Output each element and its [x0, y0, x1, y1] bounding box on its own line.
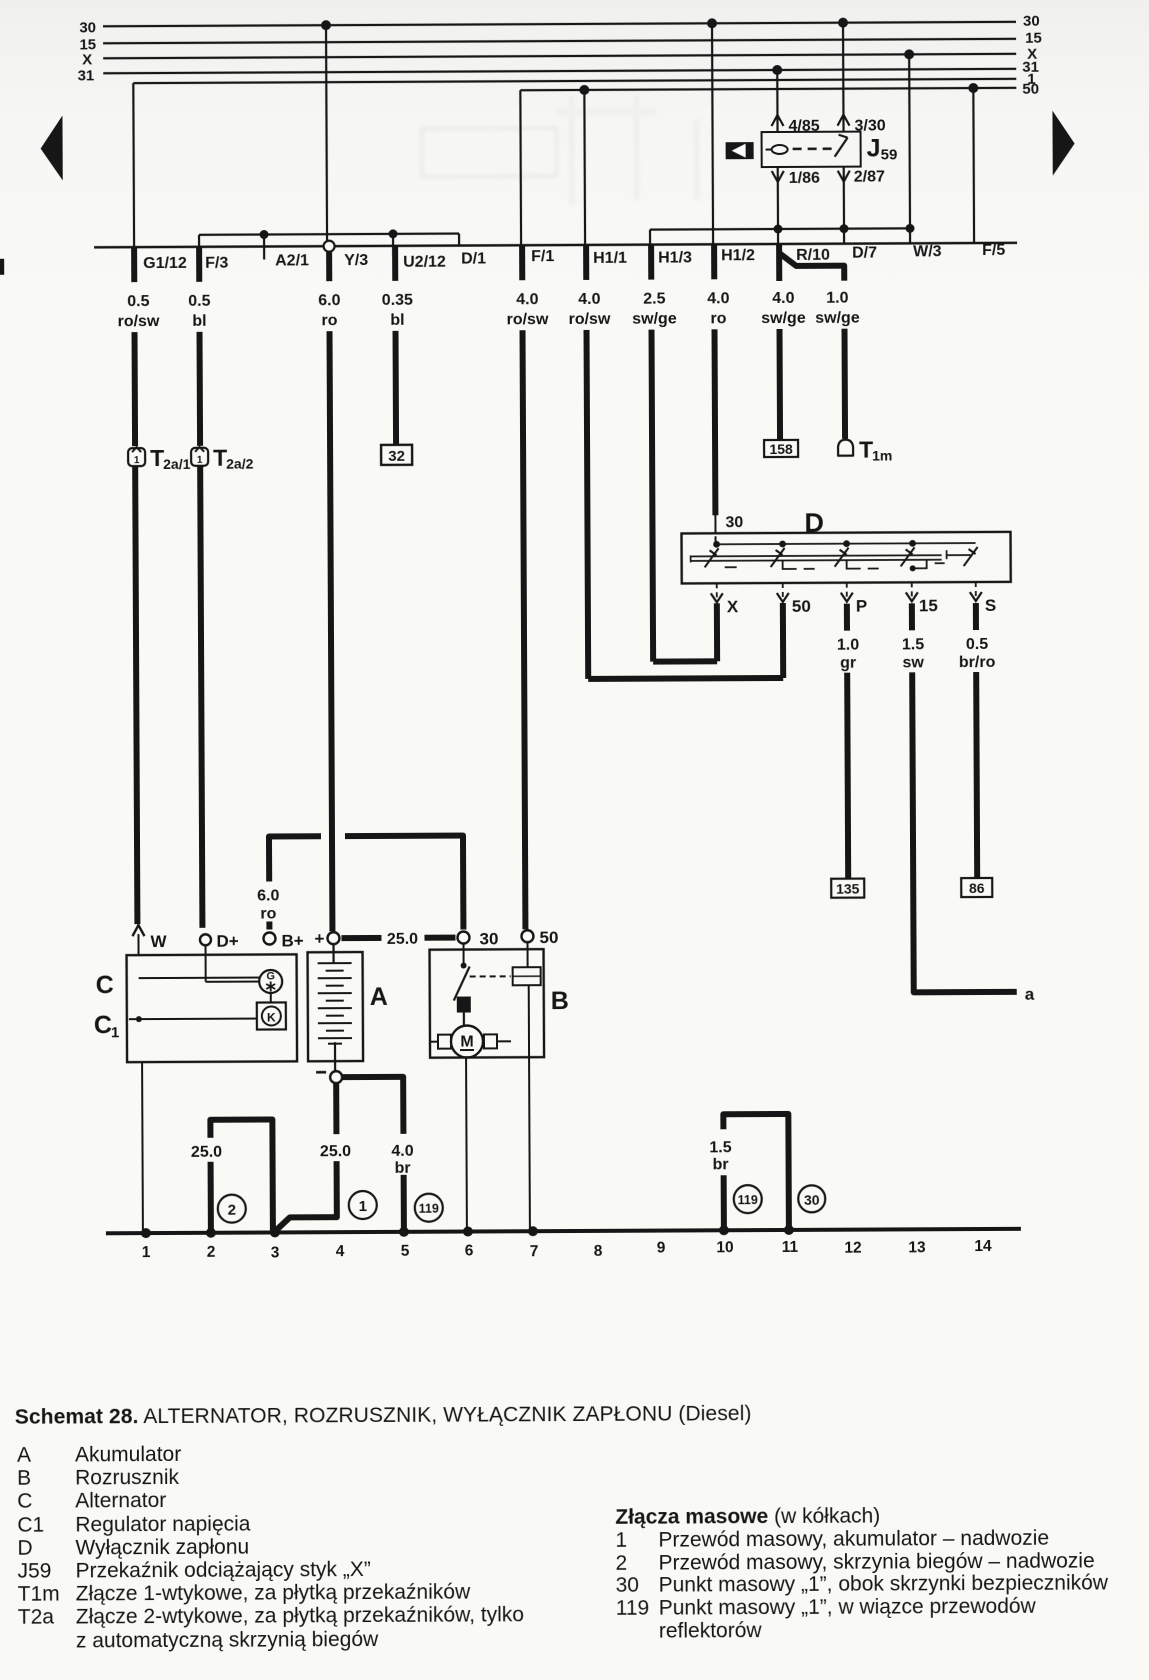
- svg-text:50: 50: [539, 928, 558, 947]
- svg-text:ro: ro: [321, 312, 337, 329]
- svg-text:F/1: F/1: [531, 248, 554, 265]
- svg-text:2a/1: 2a/1: [163, 456, 191, 472]
- svg-text:H1/1: H1/1: [593, 250, 627, 267]
- svg-text:4/85: 4/85: [788, 118, 819, 135]
- svg-text:6.0: 6.0: [318, 292, 340, 309]
- svg-text:30: 30: [804, 1192, 820, 1208]
- svg-text:2.5: 2.5: [643, 291, 665, 308]
- svg-text:T: T: [150, 445, 164, 471]
- svg-text:U2/12: U2/12: [403, 254, 446, 271]
- svg-text:br: br: [395, 1160, 411, 1177]
- svg-text:59: 59: [881, 146, 898, 163]
- svg-text:50: 50: [792, 597, 811, 616]
- svg-text:br/ro: br/ro: [959, 654, 996, 671]
- svg-text:sw/ge: sw/ge: [815, 310, 860, 327]
- svg-text:1: 1: [197, 455, 203, 466]
- svg-text:0.5: 0.5: [966, 636, 988, 653]
- svg-text:F/3: F/3: [205, 255, 228, 272]
- svg-text:W: W: [150, 932, 167, 951]
- svg-text:5: 5: [401, 1243, 410, 1260]
- svg-text:0.35: 0.35: [382, 292, 413, 309]
- svg-text:B+: B+: [281, 931, 303, 950]
- svg-text:3/30: 3/30: [854, 117, 885, 134]
- svg-text:ro: ro: [710, 310, 726, 327]
- svg-text:11: 11: [782, 1239, 799, 1256]
- svg-text:J: J: [867, 134, 881, 162]
- svg-text:1/86: 1/86: [789, 170, 820, 187]
- svg-text:K: K: [267, 1010, 276, 1024]
- svg-text:sw: sw: [902, 654, 924, 671]
- svg-text:4.0: 4.0: [707, 290, 729, 307]
- svg-text:135: 135: [836, 881, 860, 897]
- svg-text:D+: D+: [216, 932, 238, 951]
- svg-text:+: +: [314, 929, 324, 948]
- svg-text:30: 30: [1023, 13, 1040, 30]
- svg-text:4.0: 4.0: [516, 291, 538, 308]
- svg-text:H1/3: H1/3: [658, 249, 692, 266]
- svg-text:C: C: [94, 1011, 112, 1039]
- svg-text:1.5: 1.5: [709, 1139, 731, 1156]
- svg-text:12: 12: [844, 1240, 861, 1257]
- svg-text:119: 119: [419, 1202, 439, 1216]
- svg-text:0.5: 0.5: [188, 293, 210, 310]
- svg-text:1: 1: [359, 1198, 367, 1215]
- svg-text:2: 2: [207, 1244, 216, 1261]
- svg-text:X: X: [82, 51, 92, 68]
- svg-text:6.0: 6.0: [257, 887, 279, 904]
- svg-text:bl: bl: [390, 312, 404, 329]
- svg-text:1m: 1m: [872, 447, 892, 463]
- svg-text:R/10: R/10: [796, 247, 830, 264]
- svg-text:50: 50: [1022, 81, 1039, 98]
- svg-text:1: 1: [134, 455, 140, 466]
- svg-text:1.5: 1.5: [902, 636, 924, 653]
- svg-text:D/1: D/1: [461, 250, 486, 267]
- svg-text:Y/3: Y/3: [344, 252, 368, 269]
- svg-text:32: 32: [388, 448, 405, 465]
- svg-text:ro/sw: ro/sw: [569, 311, 611, 328]
- svg-text:sw/ge: sw/ge: [632, 310, 677, 327]
- svg-text:a: a: [1025, 985, 1035, 1004]
- svg-text:15: 15: [919, 596, 938, 615]
- svg-text:4.0: 4.0: [391, 1143, 413, 1160]
- svg-text:7: 7: [530, 1243, 539, 1260]
- svg-text:A: A: [370, 983, 388, 1011]
- svg-text:B: B: [551, 987, 569, 1015]
- svg-text:14: 14: [974, 1238, 992, 1255]
- svg-text:4: 4: [336, 1243, 345, 1260]
- svg-text:1: 1: [142, 1244, 151, 1261]
- svg-text:2/87: 2/87: [854, 168, 885, 185]
- svg-text:3: 3: [271, 1244, 280, 1261]
- svg-text:S: S: [985, 596, 996, 615]
- svg-text:D/7: D/7: [852, 245, 877, 262]
- svg-text:30: 30: [79, 19, 96, 36]
- svg-text:G1/12: G1/12: [143, 255, 187, 272]
- svg-text:M: M: [460, 1033, 473, 1050]
- svg-text:86: 86: [969, 880, 985, 896]
- svg-text:ro/sw: ro/sw: [118, 313, 160, 330]
- svg-text:T: T: [213, 445, 227, 471]
- svg-text:25.0: 25.0: [320, 1143, 351, 1160]
- svg-text:119: 119: [738, 1193, 758, 1207]
- svg-text:6: 6: [465, 1242, 474, 1259]
- svg-text:4.0: 4.0: [578, 291, 600, 308]
- svg-text:C: C: [96, 971, 114, 999]
- svg-text:15: 15: [1025, 30, 1042, 47]
- svg-text:1.0: 1.0: [837, 637, 859, 654]
- svg-text:1.0: 1.0: [826, 290, 848, 307]
- svg-text:9: 9: [657, 1240, 666, 1257]
- svg-text:X: X: [727, 597, 739, 616]
- svg-text:gr: gr: [840, 655, 856, 672]
- svg-text:30: 30: [725, 514, 743, 531]
- svg-text:ro: ro: [260, 905, 276, 922]
- svg-text:30: 30: [479, 929, 498, 948]
- svg-text:G: G: [266, 970, 275, 982]
- svg-text:ro/sw: ro/sw: [507, 311, 549, 328]
- svg-text:158: 158: [769, 441, 793, 457]
- svg-text:25.0: 25.0: [191, 1144, 222, 1161]
- svg-text:2a/2: 2a/2: [226, 456, 254, 472]
- svg-text:1: 1: [111, 1024, 119, 1041]
- svg-text:sw/ge: sw/ge: [761, 310, 806, 327]
- svg-text:br: br: [713, 1156, 729, 1173]
- svg-text:2: 2: [228, 1202, 236, 1219]
- svg-text:F/5: F/5: [982, 242, 1005, 259]
- svg-text:8: 8: [594, 1243, 603, 1260]
- svg-text:4.0: 4.0: [772, 290, 794, 307]
- svg-text:0.5: 0.5: [127, 293, 149, 310]
- svg-text:W/3: W/3: [913, 243, 942, 260]
- svg-text:31: 31: [78, 67, 95, 84]
- svg-text:T: T: [859, 437, 873, 463]
- svg-text:H1/2: H1/2: [721, 247, 755, 264]
- svg-text:bl: bl: [192, 313, 206, 330]
- svg-text:13: 13: [908, 1239, 926, 1256]
- svg-text:A2/1: A2/1: [275, 252, 309, 269]
- svg-text:10: 10: [716, 1239, 733, 1256]
- svg-text:25.0: 25.0: [387, 931, 418, 948]
- svg-text:P: P: [856, 597, 867, 616]
